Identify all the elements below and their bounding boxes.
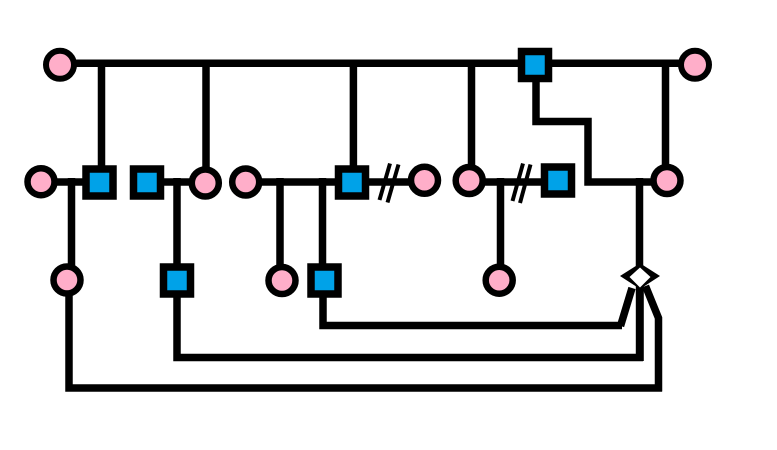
female F9 row2 right circle [654,167,681,194]
female F4 row2 circle [192,170,219,197]
female F10 row3 circle [54,267,81,294]
wire diagonal of line1 [621,288,633,326]
female F5 row2 circle [232,169,259,196]
divorce slashes pair 1 [380,164,391,201]
wire child M7 route [323,295,622,326]
wire drop couple A child [68,178,76,266]
female F1 top-left circle [46,51,74,79]
male M6 row3 square [164,267,191,294]
wire drop to diamond [636,178,644,266]
wire drop couple E child [497,178,505,267]
wire child F10 long route [69,295,662,388]
male M2 row2 square [86,169,113,196]
male M3 row2 square [134,169,161,196]
divorce slashes pair 2 [513,164,524,202]
wire drop to F9 [662,60,670,168]
wire drop couple B child [173,178,181,266]
wire child M6 route [177,295,643,358]
wire couple C [245,178,352,186]
female F2 top-right circle [681,51,709,79]
female F3 row2 circle [28,168,55,195]
wire elbow from M-top to second row [536,82,666,182]
female F7 row2 circle [456,167,483,194]
wire couple B [147,178,203,186]
wire couple D [352,178,426,186]
wire drop to M2 [98,60,106,170]
wire drop to F4 [202,60,210,172]
wire drop to F7 [468,60,476,172]
wire riser of line2 [636,284,644,361]
wire riser right of line3 [646,286,659,392]
wire top mating line [60,59,694,67]
wire drop couple C child 1 [276,178,284,266]
female F12 row3 circle [486,267,513,294]
male M1 top square [522,52,549,79]
wire couple A [42,178,100,186]
male M5 row2 square [545,167,572,194]
wire drop to M4 [350,60,358,170]
male M7 row3 square [311,267,338,294]
female F11 row3 circle [269,267,296,294]
female F6 row2 circle [411,167,438,194]
wire drop couple C child 2 [319,178,327,266]
male M4 row2 square [339,169,366,196]
diamond unknown-sex [620,263,660,289]
wire couple E [469,178,558,186]
